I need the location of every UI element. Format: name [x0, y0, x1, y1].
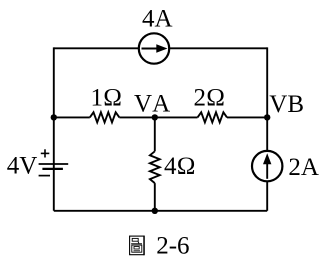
wire right branch lower: [266, 182, 268, 211]
label VA: [134, 91, 170, 118]
current source I2 2A circle: [252, 151, 282, 181]
battery minus sign: [39, 175, 50, 177]
svg-text:4V: 4V: [7, 153, 38, 180]
current source I1 4A circle: [139, 33, 169, 63]
label 4A: [142, 5, 173, 32]
node VB dot: [264, 114, 270, 120]
battery plus sign: [41, 149, 50, 157]
svg-text:VB: VB: [269, 91, 304, 118]
svg-text:4A: 4A: [142, 5, 173, 32]
node dot bottom middle: [152, 208, 158, 214]
current source I1 4A arrow: [142, 44, 168, 53]
wire center branch upper lead: [154, 117, 156, 151]
resistor 2ohm zigzag: [198, 112, 228, 122]
svg-text:1Ω: 1Ω: [90, 84, 122, 111]
label 4 ohm: [164, 153, 196, 180]
resistor 1ohm zigzag: [90, 112, 120, 122]
wire middle left lead: [54, 116, 90, 118]
node VA dot: [152, 114, 158, 120]
label 4V: [7, 153, 38, 180]
caption text 2-6: [156, 233, 189, 260]
wire top-left segment: [54, 47, 139, 49]
svg-text:VA: VA: [134, 91, 170, 118]
wire middle between resistors: [119, 116, 197, 118]
wire right branch upper: [266, 47, 268, 150]
svg-text:2A: 2A: [288, 154, 319, 181]
node dot left middle: [51, 114, 57, 120]
label 1 ohm: [90, 84, 122, 111]
voltage source V1 4V battery short plate: [42, 168, 63, 170]
current source I2 2A arrow: [263, 153, 271, 179]
caption character tu (figure) drawn: [130, 236, 145, 256]
wire top-right segment: [169, 47, 267, 49]
svg-text:2Ω: 2Ω: [193, 84, 225, 111]
wire middle right lead: [227, 116, 267, 118]
wire bottom: [54, 210, 267, 212]
svg-text:4Ω: 4Ω: [164, 153, 196, 180]
voltage source V1 4V battery long plate: [39, 163, 69, 165]
label 2 ohm: [193, 84, 225, 111]
label VB: [269, 91, 304, 118]
resistor 4ohm zigzag (vertical): [150, 151, 160, 183]
wire left branch: [53, 47, 55, 210]
label 2A: [288, 154, 319, 181]
wire center branch lower lead: [154, 183, 156, 211]
svg-text:2-6: 2-6: [156, 233, 189, 260]
